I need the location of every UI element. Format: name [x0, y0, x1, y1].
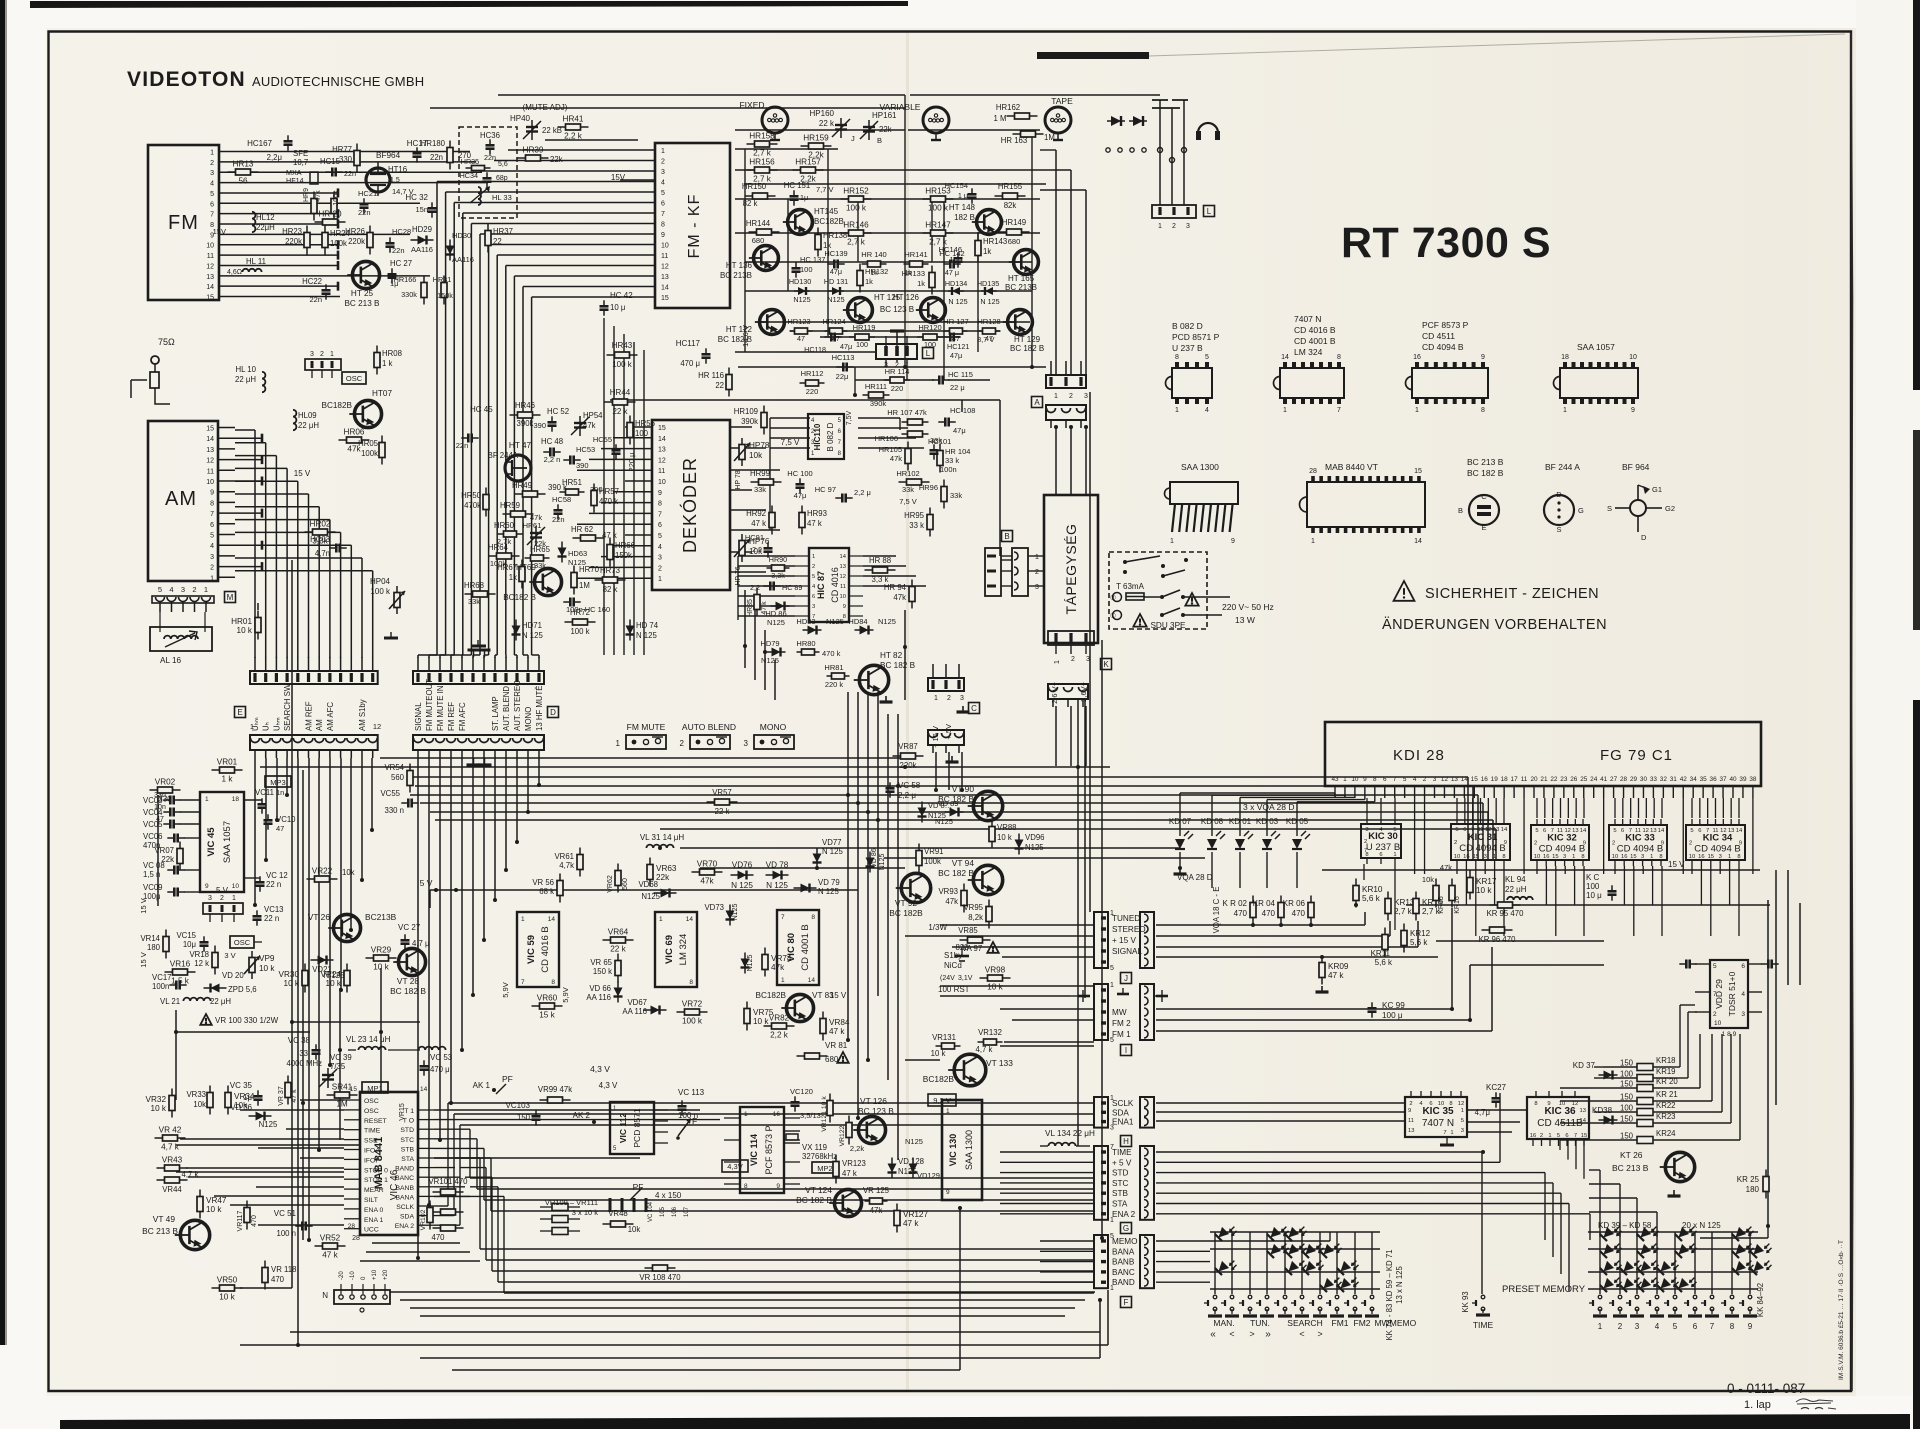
svg-text:8: 8 [658, 501, 662, 508]
svg-text:VR22: VR22 [312, 867, 333, 876]
svg-text:HC 42: HC 42 [610, 291, 633, 300]
svg-text:12: 12 [1485, 827, 1491, 833]
svg-text:470k: 470k [464, 501, 481, 510]
svg-text:N 125: N 125 [522, 631, 543, 640]
resistor HR31 [433, 275, 454, 305]
svg-text:3: 3 [1433, 776, 1437, 783]
capacitor VC15 [176, 931, 208, 952]
resistor VR47 [197, 1190, 227, 1219]
svg-text:VR33: VR33 [186, 1090, 206, 1099]
svg-text:22n: 22n [484, 153, 496, 162]
svg-text:KR 25: KR 25 [1737, 1175, 1760, 1184]
svg-text:12: 12 [206, 458, 214, 465]
svg-text:N125: N125 [259, 1120, 278, 1129]
crystal VX119 [784, 1131, 837, 1161]
resistor VR64 [603, 928, 634, 954]
svg-text:11: 11 [1557, 828, 1563, 834]
svg-text:15: 15 [1471, 776, 1479, 783]
resistor HR81 [824, 663, 849, 689]
wire J rows [905, 912, 1438, 957]
svg-text:13: 13 [661, 274, 669, 281]
svg-text:HR43: HR43 [612, 341, 633, 350]
svg-text:14: 14 [661, 285, 669, 292]
connector TAPE DIN [1045, 107, 1071, 140]
svg-text:HP78: HP78 [749, 441, 770, 450]
svg-text:VR 65: VR 65 [590, 958, 612, 967]
connector VARIABLE DIN [923, 107, 949, 140]
svg-text:330: 330 [158, 795, 172, 804]
svg-text:41: 41 [1600, 776, 1608, 783]
resistor HR85 [747, 588, 768, 617]
svg-text:HR90: HR90 [769, 555, 787, 564]
reference IC 7407N CD4016B CD4001B LM324 labels [1294, 314, 1336, 357]
svg-text:5: 5 [1713, 963, 1717, 970]
resistor VR32 [146, 1089, 175, 1118]
svg-text:15: 15 [1581, 1133, 1587, 1139]
LED KD 03 [1256, 817, 1280, 888]
svg-text:HC 115: HC 115 [948, 370, 973, 379]
wire L mid connector rails [886, 359, 907, 380]
svg-text:28: 28 [1309, 468, 1317, 475]
resistor HR144 [746, 219, 780, 245]
antenna 75 Ohm [131, 337, 175, 398]
svg-text:16: 16 [1698, 854, 1704, 860]
svg-text:1: 1 [744, 1111, 748, 1118]
scan edge left black strip [0, 0, 5, 1345]
svg-text:TUNED: TUNED [1112, 914, 1140, 923]
svg-text:220 V~ 50 Hz: 220 V~ 50 Hz [1222, 602, 1274, 612]
svg-text:21: 21 [1540, 776, 1548, 783]
capacitor HC91 [745, 533, 773, 558]
svg-text:HC139: HC139 [824, 249, 847, 258]
svg-text:10: 10 [1714, 1020, 1722, 1027]
svg-text:7: 7 [1629, 828, 1632, 834]
svg-text:KD 01: KD 01 [1229, 817, 1252, 826]
connector K socket [1048, 684, 1088, 707]
svg-text:B 082 D: B 082 D [826, 422, 835, 451]
svg-text:42: 42 [1680, 776, 1688, 783]
trimmer VC 39 [286, 1053, 351, 1088]
svg-text:CD 4511: CD 4511 [1422, 331, 1455, 341]
diode VD129 [909, 1158, 940, 1181]
svg-text:KR 20: KR 20 [1656, 1077, 1678, 1086]
wire KIC bottoms to rails [1364, 864, 1739, 936]
svg-text:STOP 0: STOP 0 [364, 1167, 388, 1174]
wire right power rails [1322, 870, 1770, 965]
svg-text:HR138: HR138 [823, 231, 847, 240]
svg-text:VC 12: VC 12 [266, 871, 288, 880]
svg-text:N 125: N 125 [731, 881, 753, 890]
svg-text:HR157: HR157 [795, 158, 821, 167]
resistor VR74 [762, 948, 792, 977]
svg-text:11: 11 [1521, 776, 1528, 783]
svg-text:VL 31 14 μH: VL 31 14 μH [640, 833, 685, 842]
svg-text:HC 45: HC 45 [470, 405, 493, 414]
svg-text:5: 5 [1205, 354, 1209, 361]
svg-text:13 W: 13 W [1235, 615, 1255, 625]
svg-text:TUN.: TUN. [1250, 1318, 1270, 1328]
svg-text:7: 7 [1551, 828, 1554, 834]
svg-text:56: 56 [238, 177, 248, 186]
diode HD79 [760, 639, 785, 665]
svg-text:10 k: 10 k [237, 626, 253, 635]
svg-text:KR16: KR16 [1454, 896, 1461, 914]
connector F socket [1140, 1235, 1154, 1288]
resistor HR46 [510, 401, 541, 428]
svg-text:VD 66: VD 66 [589, 984, 611, 993]
svg-text:2: 2 [661, 159, 665, 166]
svg-text:②: ② [1110, 594, 1116, 602]
svg-text:35: 35 [1700, 776, 1708, 783]
diode HD86 [765, 602, 789, 628]
svg-text:4,3 V: 4,3 V [590, 1064, 610, 1074]
svg-text:BC 213 B: BC 213 B [344, 299, 380, 308]
svg-text:VR 118: VR 118 [271, 1265, 296, 1274]
svg-text:AUT. BLEND: AUT. BLEND [502, 686, 511, 731]
reference BF964 symbol [1607, 485, 1675, 542]
svg-text:4,3 V: 4,3 V [599, 1081, 618, 1090]
svg-text:N125: N125 [935, 817, 953, 826]
svg-text:VR121 10 k: VR121 10 k [821, 1096, 828, 1132]
reference DIP18 package [1554, 354, 1638, 414]
svg-text:HL 10: HL 10 [235, 365, 256, 374]
reference IC B082D PCD8571P U237B labels [1172, 321, 1220, 353]
diode HD130 [789, 277, 811, 304]
transistor VT 92 [896, 873, 931, 902]
test point MP3 [265, 776, 291, 787]
svg-text:4,7k: 4,7k [559, 861, 574, 870]
svg-text:4,3V: 4,3V [727, 1162, 742, 1171]
svg-text:VR 100 330 1/2W: VR 100 330 1/2W [215, 1016, 279, 1025]
svg-text:1M: 1M [336, 1100, 348, 1109]
resistor HR123 [787, 317, 812, 343]
label 220V 50Hz 13W [1222, 602, 1274, 625]
coil HL11 [227, 257, 266, 276]
svg-text:1: 1 [1110, 1217, 1114, 1224]
svg-text:STD: STD [400, 1127, 414, 1134]
resistor VR22 [307, 867, 338, 883]
svg-text:8: 8 [744, 1183, 748, 1190]
capacitor VC03 [143, 792, 200, 805]
svg-text:HR39: HR39 [523, 146, 544, 155]
resistor HR133 [902, 266, 935, 295]
svg-text:470: 470 [1234, 909, 1248, 918]
connector label C [969, 703, 980, 714]
svg-text:470 k: 470 k [599, 497, 618, 506]
svg-text:3: 3 [1563, 854, 1566, 860]
svg-text:KK 93: KK 93 [1461, 1291, 1470, 1312]
svg-text:10 k: 10 k [219, 1293, 235, 1302]
svg-text:E: E [237, 708, 242, 717]
svg-text:BC182B: BC182B [756, 991, 787, 1000]
svg-text:11: 11 [658, 468, 665, 475]
transistor VT 90 [968, 791, 1003, 820]
svg-text:N125: N125 [747, 955, 754, 972]
svg-text:470 μ: 470 μ [430, 1065, 450, 1074]
svg-text:4,7 μ: 4,7 μ [412, 939, 430, 948]
resistor VR95 [963, 900, 992, 929]
svg-text:22k: 22k [550, 155, 563, 164]
svg-text:22: 22 [493, 237, 502, 246]
svg-text:100: 100 [800, 265, 813, 274]
resistor VR 42 [155, 1126, 186, 1152]
svg-text:33: 33 [299, 1049, 308, 1058]
connector L strip [1152, 205, 1196, 230]
wire IF strip rails [735, 130, 1046, 395]
block FM-KF [655, 143, 730, 308]
wire F rows to matrix [1156, 1232, 1330, 1282]
svg-text:VIC 45: VIC 45 [206, 827, 217, 857]
reference DIP14 package [1274, 354, 1345, 414]
svg-text:9: 9 [1547, 1101, 1550, 1107]
svg-text:1: 1 [1170, 538, 1174, 545]
svg-text:LM 324: LM 324 [1294, 347, 1323, 357]
svg-text:HIC 87: HIC 87 [816, 571, 826, 599]
svg-text:8,7 V: 8,7 V [977, 335, 995, 344]
svg-text:AUT. STEREO: AUT. STEREO [513, 680, 522, 731]
svg-text:STD: STD [1112, 1169, 1128, 1178]
svg-text:HC28: HC28 [392, 227, 411, 236]
svg-text:150: 150 [1620, 1132, 1634, 1141]
svg-text:100 k: 100 k [928, 204, 949, 213]
svg-text:KR18: KR18 [1656, 1056, 1676, 1065]
svg-text:Uₕ: Uₕ [262, 722, 271, 731]
svg-text:47k: 47k [945, 897, 958, 906]
svg-text:HP161: HP161 [872, 111, 897, 120]
mains switch dashed box [1109, 552, 1207, 629]
wire bundle VIC46 right to right side [434, 1103, 1094, 1225]
svg-text:2: 2 [1069, 393, 1073, 400]
svg-text:10: 10 [206, 243, 214, 250]
resistor HR70 [571, 565, 600, 595]
svg-text:KC27: KC27 [1486, 1083, 1507, 1092]
svg-text:KD 03: KD 03 [1256, 817, 1279, 826]
wire bundle DEKODER left pins [577, 427, 635, 578]
ground symbols strip D [468, 650, 491, 657]
svg-text:HC113: HC113 [832, 353, 855, 362]
svg-text:8: 8 [1737, 854, 1740, 860]
svg-text:14: 14 [206, 284, 214, 291]
IC HIC87 CD4016 [795, 548, 863, 622]
connector I [1094, 982, 1131, 1044]
svg-text:MEAR: MEAR [364, 1187, 384, 1194]
svg-text:HR149: HR149 [1002, 218, 1026, 227]
resistor HR 62 [571, 525, 617, 541]
svg-text:J: J [851, 134, 855, 143]
svg-text:82k: 82k [1004, 201, 1017, 210]
capacitor VC17 [152, 973, 187, 991]
svg-text:15: 15 [1473, 854, 1479, 860]
svg-text:5: 5 [1403, 776, 1407, 783]
svg-text:+20: +20 [383, 1269, 389, 1280]
svg-text:6: 6 [1429, 1101, 1432, 1107]
svg-text:HC 100: HC 100 [787, 469, 812, 478]
svg-text:2,2 k: 2,2 k [564, 132, 583, 141]
capacitor HC15 [320, 157, 356, 178]
svg-text:1 M: 1 M [994, 114, 1007, 123]
svg-text:AA116: AA116 [411, 245, 433, 254]
resistor HR124 [822, 317, 847, 343]
svg-text:75Ω: 75Ω [158, 337, 175, 347]
svg-text:47 k: 47 k [842, 1169, 857, 1178]
svg-text:BC 182 B: BC 182 B [1010, 344, 1044, 353]
svg-text:9: 9 [946, 1189, 950, 1196]
svg-text:AL 16: AL 16 [160, 656, 182, 665]
svg-text:FG 79 C1: FG 79 C1 [1600, 747, 1673, 764]
svg-text:4: 4 [210, 543, 214, 550]
svg-text:Uₕₘ: Uₕₘ [272, 717, 281, 731]
svg-text:HT 25: HT 25 [351, 289, 374, 298]
svg-text:22k: 22k [879, 125, 892, 134]
capacitor HC36 [480, 131, 500, 162]
svg-text:HR 127: HR 127 [943, 317, 968, 326]
svg-text:14: 14 [1580, 828, 1587, 834]
LED KD 01 [1229, 817, 1253, 888]
capacitor VC04 [143, 804, 200, 817]
connector MONO [744, 722, 794, 749]
svg-text:330k: 330k [401, 290, 417, 299]
resistor HR66 [607, 538, 635, 567]
svg-text:HR152: HR152 [843, 187, 869, 196]
svg-text:2: 2 [1071, 656, 1075, 663]
resistor KR95 [1490, 902, 1521, 908]
svg-text:1: 1 [1110, 1285, 1114, 1292]
svg-text:47μ: 47μ [950, 351, 962, 360]
svg-text:VC55: VC55 [380, 789, 400, 798]
svg-text:10 k: 10 k [151, 1104, 167, 1113]
svg-text:VR123: VR123 [842, 1159, 866, 1168]
svg-text:HR162: HR162 [996, 103, 1020, 112]
svg-text:A: A [1034, 398, 1040, 407]
svg-text:12: 12 [1572, 1101, 1578, 1107]
svg-text:VIC 69: VIC 69 [664, 935, 675, 964]
svg-text:4: 4 [1413, 776, 1417, 783]
resistor HR105 [879, 442, 911, 471]
svg-text:2,7 k: 2,7 k [753, 149, 772, 158]
transistor HT16 BF964 [366, 151, 414, 196]
capacitor HC42 [600, 291, 634, 316]
svg-text:-10: -10 [350, 1271, 356, 1280]
connector 3-2-1 osc [203, 895, 243, 922]
capacitor HC21 [358, 189, 377, 217]
svg-text:N125: N125 [732, 904, 739, 921]
svg-text:23: 23 [1560, 776, 1568, 783]
svg-text:7/35: 7/35 [330, 1062, 346, 1071]
left key matrix KK74-83 [1204, 1221, 1379, 1316]
resistor VR37 [278, 1076, 298, 1106]
svg-text:1: 1 [1054, 660, 1061, 664]
svg-text:13 x N 125: 13 x N 125 [1395, 1265, 1404, 1303]
svg-text:TAPE: TAPE [1051, 96, 1073, 106]
svg-text:HR 94: HR 94 [884, 583, 907, 592]
label Stby NiCd [938, 951, 973, 994]
svg-text:VT 124: VT 124 [805, 1185, 832, 1195]
svg-text:IFOA: IFOA [364, 1148, 380, 1155]
svg-text:28: 28 [348, 1223, 356, 1230]
svg-text:N 125: N 125 [948, 297, 967, 306]
connector label J [1121, 973, 1132, 984]
svg-text:3: 3 [661, 169, 665, 176]
svg-text:22 k: 22 k [715, 807, 730, 816]
svg-text:10: 10 [840, 594, 846, 600]
diode VD68 [638, 880, 676, 901]
svg-text:5,6 k: 5,6 k [1375, 958, 1393, 967]
block KDI 28 FG 79 C1 display [1325, 722, 1761, 786]
svg-text:180: 180 [1746, 1185, 1760, 1194]
potentiometer HP40 [510, 114, 562, 140]
capacitor HC28 [386, 227, 412, 255]
ground bars decoder [384, 632, 486, 646]
resistor HR128 [977, 317, 1000, 343]
svg-text:N125: N125 [761, 656, 779, 665]
capacitor HC 52 [533, 407, 569, 432]
resistor VR122 [839, 1116, 864, 1154]
svg-text:VC06: VC06 [143, 832, 163, 841]
svg-text:25: 25 [1580, 776, 1588, 783]
svg-text:2,2μ: 2,2μ [267, 153, 282, 162]
svg-text:10: 10 [661, 243, 669, 250]
svg-text:HR158: HR158 [749, 132, 775, 141]
svg-text:3: 3 [1186, 223, 1190, 230]
resistor HR59 [500, 501, 542, 522]
svg-text:1: 1 [330, 351, 334, 358]
svg-text:N 125: N 125 [636, 631, 657, 640]
svg-text:HR02: HR02 [310, 520, 331, 529]
capacitor HC 45 [456, 405, 493, 450]
svg-text:2,2 μ: 2,2 μ [854, 488, 871, 497]
svg-text:2: 2 [1689, 841, 1692, 847]
svg-text:VR47: VR47 [206, 1196, 227, 1205]
diode HD63 [558, 542, 588, 568]
svg-text:VR122: VR122 [839, 1125, 846, 1146]
svg-text:680: 680 [752, 236, 765, 245]
svg-text:AA 116: AA 116 [586, 993, 611, 1002]
svg-text:HC 97: HC 97 [815, 485, 836, 494]
svg-text:B: B [1004, 532, 1009, 541]
svg-text:HR95: HR95 [904, 511, 925, 520]
svg-text:CD 4016: CD 4016 [830, 567, 840, 603]
svg-text:22 k: 22 k [819, 119, 835, 128]
svg-text:12: 12 [1642, 828, 1648, 834]
diode KD 37 [1573, 1061, 1618, 1080]
svg-text:VC 35: VC 35 [230, 1081, 253, 1090]
diode VD73 [704, 903, 739, 926]
svg-text:3: 3 [1635, 1322, 1640, 1331]
svg-text:1: 1 [205, 796, 209, 803]
svg-text:150k: 150k [615, 551, 632, 560]
svg-text:1 8 9: 1 8 9 [1722, 1031, 1737, 1038]
page fold seam [906, 32, 909, 1392]
svg-text:13: 13 [1650, 828, 1656, 834]
resistor HR 94 [884, 580, 915, 609]
svg-text:1: 1 [659, 916, 663, 923]
resistor VR50 [212, 1276, 243, 1302]
fuse T 63mA [1110, 582, 1207, 602]
capacitor HC03 [310, 535, 347, 558]
svg-text:100: 100 [1620, 1070, 1634, 1079]
svg-text:VR30: VR30 [279, 970, 300, 979]
svg-text:HR96: HR96 [919, 483, 938, 492]
svg-text:8: 8 [210, 500, 214, 507]
svg-text:3: 3 [1719, 854, 1722, 860]
resistor HR153 [923, 187, 954, 213]
svg-text:220 k: 220 k [825, 680, 844, 689]
svg-text:24: 24 [1590, 776, 1598, 783]
connector label G [1121, 1223, 1132, 1234]
potentiometer VP9 [244, 951, 275, 979]
svg-text:11: 11 [1477, 827, 1483, 833]
svg-text:106: 106 [672, 1206, 678, 1217]
